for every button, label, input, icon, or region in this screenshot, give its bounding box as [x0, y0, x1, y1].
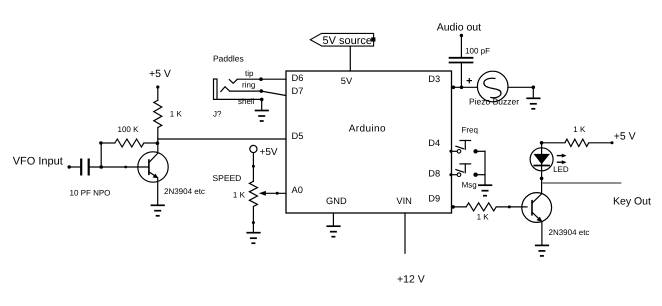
- wire: [157, 178, 159, 205]
- wire: [532, 87, 534, 98]
- net label 5V source flag: [310, 33, 375, 47]
- svg-text:1 K: 1 K: [477, 212, 490, 221]
- svg-text:shell: shell: [238, 97, 255, 106]
- ground Q2 emitter: [535, 245, 549, 256]
- svg-text:5V: 5V: [341, 76, 353, 86]
- wire GND pin: [332, 213, 334, 226]
- wire: [144, 142, 158, 144]
- transistor Q1 2N3904: [138, 152, 168, 182]
- svg-text:1 K: 1 K: [170, 109, 183, 118]
- svg-text:10 PF NPO: 10 PF NPO: [70, 189, 111, 198]
- ground buttons: [478, 185, 492, 196]
- resistor R2 1K: [154, 100, 162, 127]
- svg-text:1 K: 1 K: [233, 191, 246, 200]
- wire: [252, 207, 254, 233]
- ground pot: [246, 233, 260, 244]
- switch S2 Msg pushbutton: [449, 164, 485, 177]
- wire D3 net: [452, 86, 478, 88]
- node +5V terminal: [156, 85, 159, 88]
- svg-text:2N3904 etc: 2N3904 etc: [164, 187, 205, 196]
- node corner: [99, 141, 102, 144]
- svg-text:1 K: 1 K: [573, 125, 586, 134]
- svg-text:100 K: 100 K: [118, 125, 140, 134]
- node pot top joint: [252, 165, 255, 168]
- wire: [252, 153, 254, 182]
- node LED bottom: [540, 177, 544, 181]
- svg-text:D9: D9: [428, 194, 440, 204]
- node pot bottom joint: [252, 221, 255, 224]
- transistor Q2 2N3904: [522, 193, 552, 223]
- svg-text:+12 V: +12 V: [397, 274, 425, 286]
- svg-text:ring: ring: [242, 81, 255, 90]
- potentiometer R3 1K: [249, 181, 257, 206]
- wire shell: [217, 98, 262, 100]
- wiper arrow: [259, 191, 286, 196]
- resistor R4 1K: [466, 203, 496, 211]
- wire: [157, 128, 159, 153]
- wire collector to LED: [541, 143, 543, 194]
- svg-text:J?: J?: [213, 110, 222, 119]
- node VFO input terminal: [68, 165, 71, 168]
- svg-text:A0: A0: [292, 185, 303, 195]
- wire D9 net: [452, 206, 467, 208]
- svg-text:Audio out: Audio out: [437, 21, 481, 33]
- wire: [541, 222, 543, 246]
- node D3: [452, 86, 456, 90]
- node tip: [259, 77, 263, 81]
- svg-text:SPEED: SPEED: [213, 173, 242, 183]
- svg-text:D5: D5: [292, 131, 304, 141]
- svg-text:VFO Input: VFO Input: [13, 155, 63, 167]
- ground Q1 emitter: [151, 205, 165, 216]
- wire: [460, 63, 462, 88]
- contact ring: [220, 87, 229, 92]
- wire 5V source to box: [349, 46, 351, 71]
- wire: [101, 142, 115, 144]
- node audio out terminal: [460, 34, 463, 37]
- wire: [100, 143, 102, 167]
- svg-text:D4: D4: [428, 138, 440, 148]
- switch S1 Freq pushbutton: [449, 141, 485, 154]
- svg-text:2N3904 etc: 2N3904 etc: [549, 228, 590, 237]
- LED emission arrows: [557, 154, 567, 165]
- wire: [157, 87, 159, 100]
- node joint: [124, 166, 127, 169]
- wire buttons to ground: [484, 151, 486, 185]
- node LED top: [540, 141, 544, 145]
- svg-text:100 pF: 100 pF: [465, 46, 490, 55]
- svg-text:Key Out: Key Out: [613, 196, 651, 208]
- diode D1 LED: [530, 148, 553, 171]
- svg-text:D8: D8: [428, 169, 440, 179]
- svg-text:Arduino: Arduino: [349, 124, 386, 135]
- svg-text:5V source: 5V source: [323, 35, 373, 47]
- capacitor C2 100pF: [449, 58, 474, 63]
- node +5V end: [611, 141, 614, 144]
- wire: [508, 86, 533, 88]
- svg-text:GND: GND: [326, 196, 347, 206]
- wire: [261, 99, 263, 110]
- node collector junction: [156, 141, 160, 145]
- wire: [90, 166, 149, 168]
- svg-text:+5 V: +5 V: [149, 68, 171, 80]
- svg-text:VIN: VIN: [396, 196, 412, 206]
- label +: [467, 78, 472, 83]
- svg-text:+5 V: +5 V: [614, 131, 636, 143]
- ground shell: [255, 111, 269, 122]
- node ring: [260, 89, 264, 93]
- wire: [542, 142, 565, 144]
- svg-text:D3: D3: [428, 74, 440, 84]
- wire: [460, 36, 462, 58]
- wire: [69, 166, 81, 168]
- node base joint: [508, 205, 511, 208]
- svg-text:Piezo Buzzer: Piezo Buzzer: [469, 97, 519, 107]
- wire ring: [230, 90, 262, 92]
- connector J? phone jack: [214, 79, 218, 99]
- wire Key Out (gray): [542, 182, 621, 184]
- resistor R5 1K: [565, 139, 589, 146]
- wire: [496, 206, 527, 208]
- node cap junction: [460, 86, 464, 90]
- svg-text:Freq: Freq: [462, 126, 478, 135]
- svg-text:D7: D7: [292, 86, 304, 96]
- power +5V pot terminal: [250, 145, 257, 152]
- svg-text:Paddles: Paddles: [213, 54, 244, 64]
- svg-text:tip: tip: [245, 69, 254, 78]
- node D9: [451, 205, 455, 209]
- wire: [589, 142, 612, 144]
- node A0 wire joint: [276, 192, 279, 195]
- node shell: [260, 98, 264, 102]
- wire VIN: [404, 213, 406, 253]
- op-amp U1 Arduino box: [286, 71, 452, 213]
- buzzer LS1 piezo: [477, 71, 508, 102]
- ground GND pin: [326, 226, 340, 237]
- contact tip: [229, 79, 238, 83]
- wire ring to D7: [261, 91, 286, 95]
- svg-text:D6: D6: [292, 73, 304, 83]
- svg-text:Msg: Msg: [462, 181, 477, 190]
- resistor R1 100K: [115, 139, 144, 147]
- wire D5 net: [158, 138, 286, 140]
- node junction: [99, 165, 103, 169]
- wire tip to D6: [237, 78, 286, 80]
- capacitor C1 10PF: [81, 159, 89, 176]
- svg-text:LED: LED: [553, 165, 569, 174]
- ground buzzer: [526, 98, 540, 109]
- node buzzer gnd: [532, 86, 536, 90]
- svg-text:+5V: +5V: [260, 147, 278, 158]
